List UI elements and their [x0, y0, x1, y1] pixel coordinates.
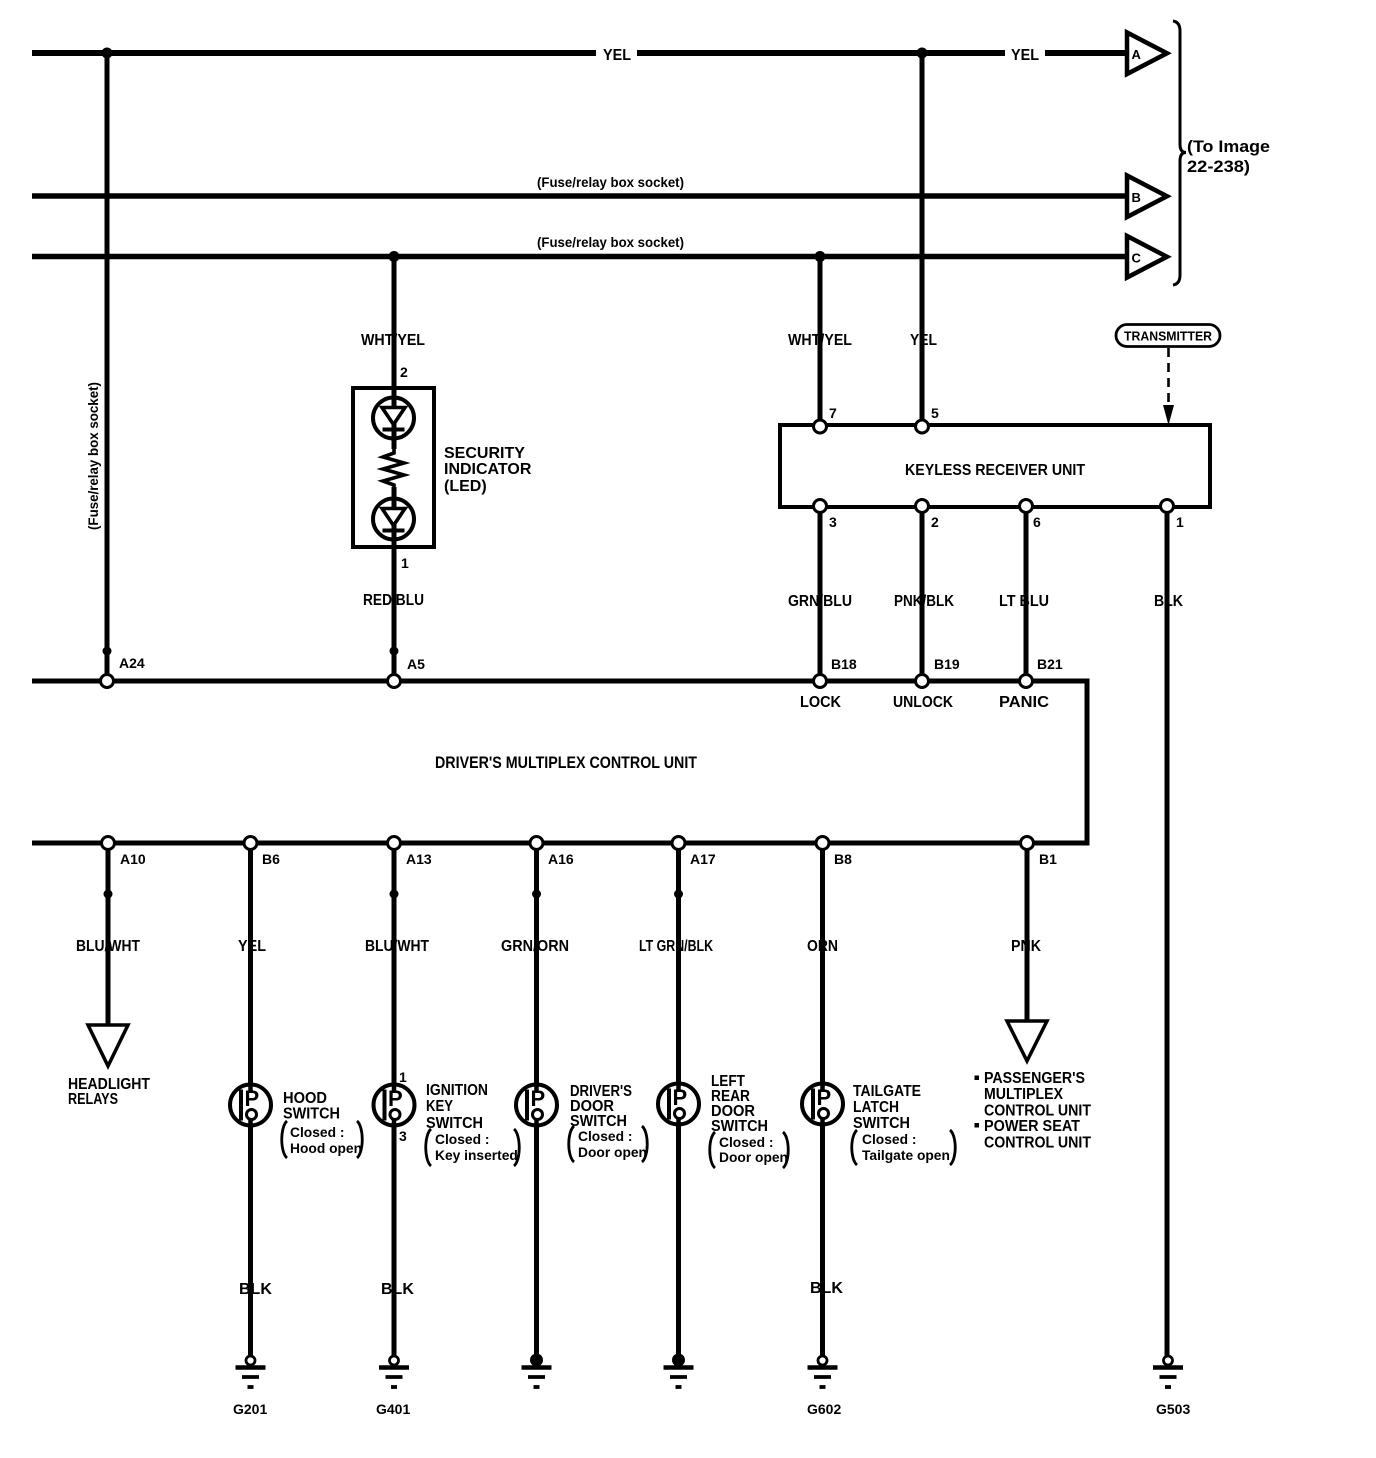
svg-text:SWITCH: SWITCH — [283, 1106, 340, 1123]
svg-text:2: 2 — [400, 364, 408, 380]
connector circle B8 — [816, 837, 829, 850]
connector circle B19 — [916, 675, 929, 688]
ground G503 — [1153, 1356, 1183, 1387]
wire: left vertical from top line to A24 — [105, 53, 110, 681]
connector circle A5 — [388, 675, 401, 688]
wire: A13 to ignition key switch and ground — [392, 849, 397, 1358]
connector circle A24 — [101, 675, 114, 688]
svg-text:UNLOCK: UNLOCK — [893, 694, 953, 711]
svg-text:P: P — [388, 1086, 403, 1111]
pin 1 connector circle — [1161, 500, 1174, 513]
bus: multiplex control unit upper edge — [32, 679, 1090, 684]
label PASSENGER'S MULTIPLEX CONTROL UNIT / POWER SEAT CONTROL UNIT — [975, 1070, 1092, 1152]
wire: resistor to LED2 and out of box — [392, 487, 397, 681]
svg-text:BLU/WHT: BLU/WHT — [76, 938, 140, 955]
svg-text:Closed :: Closed : — [290, 1125, 344, 1140]
svg-text:IGNITION: IGNITION — [426, 1082, 488, 1099]
label IGNITION KEY SWITCH (Closed : Key inserted) — [426, 1082, 520, 1166]
wire: YEL drop to receiver pin 5 — [920, 53, 925, 427]
label DRIVER'S DOOR SWITCH (Closed : Door open) — [569, 1083, 648, 1162]
svg-text:YEL: YEL — [1011, 47, 1039, 64]
svg-text:BLK: BLK — [810, 1280, 843, 1297]
svg-text:B19: B19 — [934, 656, 960, 672]
junction dot on A16 wire — [532, 890, 541, 899]
svg-text:1: 1 — [401, 555, 409, 571]
svg-text:Closed :: Closed : — [578, 1129, 632, 1144]
svg-text:RELAYS: RELAYS — [68, 1091, 118, 1108]
svg-text:Closed :: Closed : — [719, 1135, 773, 1150]
svg-text:B6: B6 — [262, 851, 280, 867]
svg-text:5: 5 — [931, 405, 939, 421]
svg-text:22-238): 22-238) — [1187, 157, 1250, 176]
junction dot above A24 — [103, 647, 112, 656]
svg-text:Hood open: Hood open — [290, 1141, 362, 1156]
svg-text:A17: A17 — [690, 851, 716, 867]
bus: multiplex control unit lower edge — [32, 841, 1090, 846]
svg-text:Closed :: Closed : — [435, 1132, 489, 1147]
svg-text:DRIVER'S MULTIPLEX CONTROL UNI: DRIVER'S MULTIPLEX CONTROL UNIT — [435, 754, 697, 772]
LED 2 cathode bar — [383, 529, 405, 533]
connector circle A13 — [388, 837, 401, 850]
svg-text:Door open: Door open — [578, 1145, 647, 1160]
label SECURITY INDICATOR (LED) — [444, 445, 532, 495]
svg-text:KEY: KEY — [426, 1098, 453, 1115]
TRANSMITTER oval label — [1116, 325, 1220, 347]
wire: B1 PNK to passenger's units — [1025, 849, 1030, 1022]
junction dot on line C at WHT/YEL drop (security LED) — [389, 251, 400, 262]
svg-text:MULTIPLEX: MULTIPLEX — [984, 1086, 1063, 1103]
svg-text:6: 6 — [1033, 514, 1041, 530]
svg-text:HOOD: HOOD — [283, 1090, 327, 1107]
junction dot on A13 wire — [390, 890, 399, 899]
svg-text:3: 3 — [829, 514, 837, 530]
svg-text:WHT/YEL: WHT/YEL — [788, 332, 852, 349]
ground (left rear door switch, solid) — [664, 1354, 694, 1388]
svg-text:(Fuse/relay box socket): (Fuse/relay box socket) — [85, 382, 101, 530]
off-page arrow A — [1127, 33, 1167, 75]
label HOOD SWITCH (Closed : Hood open) — [282, 1090, 363, 1158]
LED 1 diode triangle — [382, 408, 405, 425]
svg-text:(Fuse/relay box socket): (Fuse/relay box socket) — [537, 234, 684, 250]
svg-text:BLK: BLK — [381, 1281, 414, 1298]
svg-text:P: P — [673, 1085, 688, 1110]
ignition key switch symbol — [374, 1085, 415, 1126]
off-page arrow C — [1127, 236, 1167, 278]
svg-text:RED/BLU: RED/BLU — [363, 592, 424, 609]
brace to off-page arrows — [1173, 21, 1186, 285]
svg-text:A24: A24 — [119, 655, 145, 671]
wire: B6 to hood switch and ground — [248, 849, 253, 1358]
svg-text:G503: G503 — [1156, 1401, 1190, 1417]
svg-text:GRN/BLU: GRN/BLU — [788, 593, 852, 610]
svg-text:1: 1 — [1176, 514, 1184, 530]
svg-text:BLK: BLK — [239, 1281, 272, 1298]
svg-text:PASSENGER'S: PASSENGER'S — [984, 1070, 1085, 1087]
wire: WHT/YEL drop to security indicator — [392, 257, 397, 450]
wire: third feed line (Fuse/relay box socket C) — [32, 254, 1127, 260]
svg-text:LT GRN/BLK: LT GRN/BLK — [639, 938, 713, 955]
svg-text:A13: A13 — [406, 851, 432, 867]
svg-text:(Fuse/relay box socket): (Fuse/relay box socket) — [537, 174, 684, 190]
LED 1 circle — [373, 398, 414, 439]
svg-text:P: P — [531, 1086, 546, 1111]
arrow to passenger's multiplex / power seat units — [1007, 1021, 1047, 1061]
wire: top YEL feed line (segment 3 to arrow A) — [1045, 50, 1127, 56]
svg-text:TRANSMITTER: TRANSMITTER — [1124, 330, 1212, 344]
bus corner: right vertical of multiplex unit — [1085, 681, 1090, 843]
svg-text:LOCK: LOCK — [800, 694, 841, 711]
svg-text:ORN: ORN — [807, 938, 838, 955]
svg-text:(To Image: (To Image — [1187, 137, 1270, 156]
connector circle A17 — [672, 837, 685, 850]
wire: top YEL feed line (segment 1) — [32, 50, 596, 56]
wire: A10 to headlight relays — [106, 849, 111, 1026]
svg-text:(LED): (LED) — [444, 478, 487, 495]
svg-text:SECURITY: SECURITY — [444, 445, 525, 462]
LED 1 cathode bar — [383, 428, 405, 432]
resistor zigzag inside security indicator — [383, 449, 404, 487]
junction dot on line C at WHT/YEL drop (receiver pin 7) — [815, 251, 826, 262]
security indicator box — [353, 388, 434, 547]
svg-text:B8: B8 — [834, 851, 852, 867]
svg-text:SWITCH: SWITCH — [570, 1113, 627, 1130]
ground G602 — [808, 1356, 838, 1387]
label (To Image 22-238) — [1187, 137, 1270, 176]
svg-text:LATCH: LATCH — [853, 1099, 899, 1116]
svg-text:A5: A5 — [407, 656, 425, 672]
svg-text:P: P — [245, 1086, 260, 1111]
svg-text:A: A — [1132, 47, 1142, 62]
LED 2 circle — [373, 499, 414, 540]
arrowhead into receiver — [1163, 405, 1174, 425]
svg-text:SWITCH: SWITCH — [711, 1118, 768, 1135]
wire: second feed line (Fuse/relay box socket B) — [32, 193, 1127, 199]
pin 6 connector circle — [1020, 500, 1033, 513]
dashed signal line from transmitter — [1167, 348, 1170, 408]
label TAILGATE LATCH SWITCH (Closed : Tailgate open) — [852, 1083, 956, 1165]
svg-text:YEL: YEL — [238, 938, 266, 955]
svg-text:YEL: YEL — [910, 332, 937, 349]
ground G401 — [379, 1356, 409, 1387]
KEYLESS RECEIVER UNIT box — [780, 425, 1210, 507]
pin 5 connector circle — [916, 420, 929, 433]
LED 2 diode triangle — [382, 509, 405, 526]
off-page arrow B — [1127, 176, 1167, 218]
junction dot on top line at left vertical — [102, 48, 113, 59]
connector circle A10 — [102, 837, 115, 850]
svg-text:CONTROL UNIT: CONTROL UNIT — [984, 1135, 1091, 1152]
wire: pin 2 to B19 — [920, 513, 925, 681]
svg-text:BLK: BLK — [1154, 593, 1183, 610]
svg-text:Door open: Door open — [719, 1150, 788, 1165]
svg-text:WHT/YEL: WHT/YEL — [361, 332, 425, 349]
svg-text:Key inserted: Key inserted — [435, 1148, 518, 1163]
wire: top YEL feed line (segment 2) — [637, 50, 1005, 56]
svg-text:P: P — [817, 1085, 832, 1110]
svg-text:CONTROL UNIT: CONTROL UNIT — [984, 1103, 1091, 1120]
left rear door switch symbol — [658, 1084, 699, 1125]
svg-text:G201: G201 — [233, 1401, 267, 1417]
pin 2 connector circle — [916, 500, 929, 513]
label HEADLIGHT RELAYS — [68, 1076, 150, 1108]
svg-text:B21: B21 — [1037, 656, 1063, 672]
svg-text:INDICATOR: INDICATOR — [444, 461, 532, 478]
wire: B8 to tailgate latch switch and ground — [820, 849, 825, 1358]
svg-text:GRN/ORN: GRN/ORN — [501, 938, 569, 955]
svg-text:2: 2 — [931, 514, 939, 530]
label LEFT REAR DOOR SWITCH (Closed : Door open) — [710, 1073, 789, 1168]
svg-text:G602: G602 — [807, 1401, 841, 1417]
driver's door switch symbol — [516, 1085, 557, 1126]
svg-text:B18: B18 — [831, 656, 857, 672]
junction dot above A5 — [390, 647, 399, 656]
tailgate latch switch symbol — [802, 1084, 843, 1125]
svg-text:1: 1 — [399, 1069, 407, 1085]
arrow to headlight relays — [88, 1025, 128, 1066]
svg-text:Closed :: Closed : — [862, 1132, 916, 1147]
svg-text:SWITCH: SWITCH — [426, 1115, 483, 1132]
svg-text:Tailgate open: Tailgate open — [862, 1148, 950, 1163]
svg-text:POWER SEAT: POWER SEAT — [984, 1118, 1080, 1135]
ground (driver's door switch, solid) — [522, 1354, 552, 1388]
junction dot on top line at YEL drop — [917, 48, 928, 59]
connector circle B1 — [1021, 837, 1034, 850]
connector circle B6 — [244, 837, 257, 850]
junction dot on A17 wire — [674, 890, 683, 899]
svg-text:A10: A10 — [120, 851, 146, 867]
pin 7 connector circle — [814, 420, 827, 433]
svg-text:3: 3 — [399, 1128, 407, 1144]
svg-text:PANIC: PANIC — [999, 694, 1049, 711]
svg-text:PNK: PNK — [1011, 938, 1041, 955]
wire: pin 1 BLK to ground G503 — [1165, 513, 1170, 1357]
connector circle A16 — [530, 837, 543, 850]
svg-text:TAILGATE: TAILGATE — [853, 1083, 921, 1100]
wire: pin 6 to B21 — [1024, 513, 1029, 681]
connector circle B21 — [1020, 675, 1033, 688]
junction dot on A10 wire — [104, 890, 113, 899]
svg-text:G401: G401 — [376, 1401, 410, 1417]
pin 3 connector circle — [814, 500, 827, 513]
wire: pin 3 to B18 — [818, 513, 823, 681]
svg-text:A16: A16 — [548, 851, 574, 867]
connector circle B18 — [814, 675, 827, 688]
wire: A17 to left rear door switch and ground — [676, 849, 681, 1361]
svg-text:SWITCH: SWITCH — [853, 1115, 910, 1132]
svg-text:LT BLU: LT BLU — [999, 593, 1049, 610]
svg-text:YEL: YEL — [603, 47, 631, 64]
svg-text:B: B — [1132, 190, 1141, 205]
svg-text:7: 7 — [829, 405, 837, 421]
svg-text:B1: B1 — [1039, 851, 1057, 867]
svg-text:BLU/WHT: BLU/WHT — [365, 938, 429, 955]
svg-text:C: C — [1132, 251, 1142, 266]
svg-text:KEYLESS RECEIVER UNIT: KEYLESS RECEIVER UNIT — [905, 462, 1085, 479]
wire: WHT/YEL drop to receiver pin 7 — [818, 257, 823, 428]
svg-text:PNK/BLK: PNK/BLK — [894, 593, 954, 610]
wire: A16 to driver's door switch and ground — [534, 849, 539, 1361]
hood switch symbol — [230, 1085, 271, 1126]
ground G201 — [236, 1356, 266, 1387]
